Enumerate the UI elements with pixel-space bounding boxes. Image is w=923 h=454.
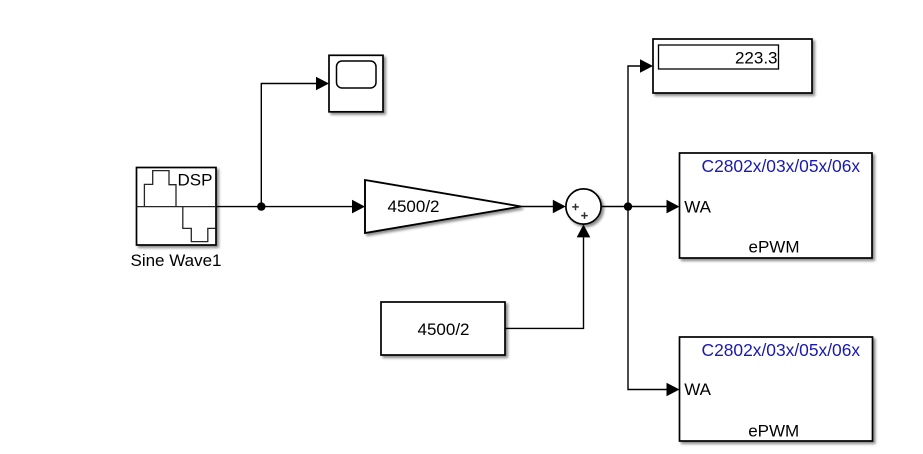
svg-text:C2802x/03x/05x/06x: C2802x/03x/05x/06x	[702, 156, 861, 176]
svg-text:WA: WA	[684, 198, 711, 217]
svg-text:4500/2: 4500/2	[388, 197, 440, 216]
svg-text:Sine Wave1: Sine Wave1	[130, 251, 221, 270]
svg-text:4500/2: 4500/2	[418, 320, 470, 339]
svg-text:WA: WA	[684, 380, 711, 399]
svg-text:ePWM: ePWM	[749, 238, 800, 257]
svg-text:C2802x/03x/05x/06x: C2802x/03x/05x/06x	[702, 340, 861, 360]
svg-text:ePWM: ePWM	[748, 421, 799, 440]
svg-text:223.3: 223.3	[735, 49, 778, 68]
svg-text:DSP: DSP	[178, 171, 213, 190]
